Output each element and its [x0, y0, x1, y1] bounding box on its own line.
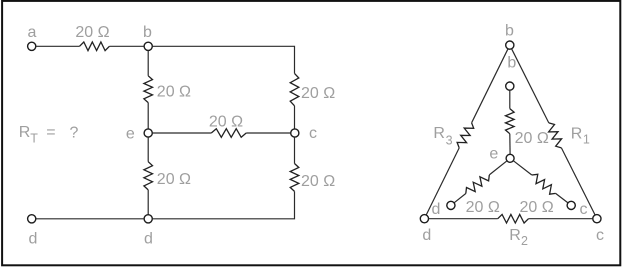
svg-text:20 Ω: 20 Ω	[466, 199, 500, 216]
resistor 20Ω e-d	[144, 162, 191, 190]
node b	[143, 24, 152, 50]
svg-text:c: c	[580, 201, 588, 218]
wire R3-d	[426, 148, 459, 215]
wire Rright-c	[294, 106, 296, 129]
svg-text:d: d	[432, 201, 441, 218]
svg-text:?: ?	[70, 125, 79, 142]
svg-text:e: e	[126, 125, 135, 142]
svg-text:b: b	[143, 24, 152, 41]
wire R1-c	[561, 148, 595, 215]
wire Rleft-dwye	[454, 194, 466, 203]
svg-text:20 Ω: 20 Ω	[301, 85, 335, 102]
wire b-R3	[472, 49, 508, 123]
wire b-R1	[512, 49, 549, 123]
svg-text:R: R	[509, 227, 521, 244]
svg-text:c: c	[309, 125, 317, 142]
resistor R3	[433, 123, 473, 148]
node e wye center	[489, 146, 514, 163]
wire R2-c	[529, 218, 593, 220]
wire bwye-Rtop	[509, 90, 511, 108]
svg-text:20 Ω: 20 Ω	[301, 173, 335, 190]
wire a-R1	[36, 45, 80, 47]
svg-text:e: e	[489, 146, 498, 163]
wire e-Rright	[513, 161, 532, 175]
node d vertex	[420, 215, 431, 244]
node c vertex	[593, 215, 604, 244]
wire Rtop-e	[509, 134, 511, 155]
wire e-Red	[147, 137, 149, 162]
resistor 20Ω wye left	[466, 175, 500, 216]
wire Red-d	[147, 190, 149, 215]
svg-text:1: 1	[583, 133, 590, 147]
svg-text:b: b	[507, 55, 516, 72]
svg-text:2: 2	[521, 234, 528, 248]
svg-text:20 Ω: 20 Ω	[515, 130, 549, 147]
svg-text:20 Ω: 20 Ω	[519, 199, 553, 216]
svg-text:=: =	[46, 124, 55, 141]
wire d-d	[36, 218, 144, 220]
label RT = ?	[19, 124, 79, 146]
node c	[291, 125, 317, 142]
resistor 20Ω a-b	[75, 24, 109, 50]
wire e-Rleft	[489, 161, 507, 175]
resistor R2	[498, 214, 529, 248]
resistor R1	[549, 123, 590, 148]
wire c-Rcd	[294, 137, 296, 163]
wire d-R2	[429, 218, 498, 220]
wire Rcd-bottom-d	[152, 191, 294, 218]
svg-text:b: b	[505, 23, 514, 40]
wire R1-b	[109, 45, 144, 47]
wire Rbe-e	[147, 103, 149, 129]
resistor 20Ω wye right	[519, 174, 555, 216]
label b inner	[507, 55, 516, 72]
svg-text:20 Ω: 20 Ω	[75, 24, 109, 41]
svg-text:20 Ω: 20 Ω	[157, 171, 191, 188]
node b vertex	[505, 23, 514, 50]
wire b-topright-corner	[152, 46, 294, 73]
node d terminal	[28, 215, 38, 248]
svg-text:c: c	[596, 227, 604, 244]
svg-text:3: 3	[446, 134, 453, 148]
svg-text:d: d	[422, 227, 431, 244]
svg-text:d: d	[29, 231, 38, 248]
node a	[28, 24, 37, 50]
resistor 20Ω b-c right	[290, 73, 335, 105]
resistor 20Ω e-c	[209, 114, 246, 138]
svg-text:20 Ω: 20 Ω	[157, 83, 191, 100]
resistor 20Ω b-e	[144, 76, 191, 103]
node c wye terminal	[567, 201, 587, 218]
resistor 20Ω wye top	[506, 109, 549, 147]
svg-text:a: a	[28, 24, 37, 41]
resistor 20Ω c-d right	[290, 164, 335, 192]
node d junction	[144, 215, 153, 248]
svg-text:d: d	[144, 231, 153, 248]
wire Rec-c	[246, 132, 290, 134]
svg-text:20 Ω: 20 Ω	[209, 114, 243, 131]
svg-text:R: R	[433, 125, 445, 142]
svg-text:R: R	[571, 126, 583, 143]
wire e-Rec	[152, 132, 211, 134]
node e	[126, 125, 152, 142]
node b wye terminal	[506, 82, 514, 90]
node d wye terminal	[432, 201, 455, 218]
wire Rright-cwye	[556, 193, 568, 203]
wire b-Rbe	[147, 51, 149, 76]
